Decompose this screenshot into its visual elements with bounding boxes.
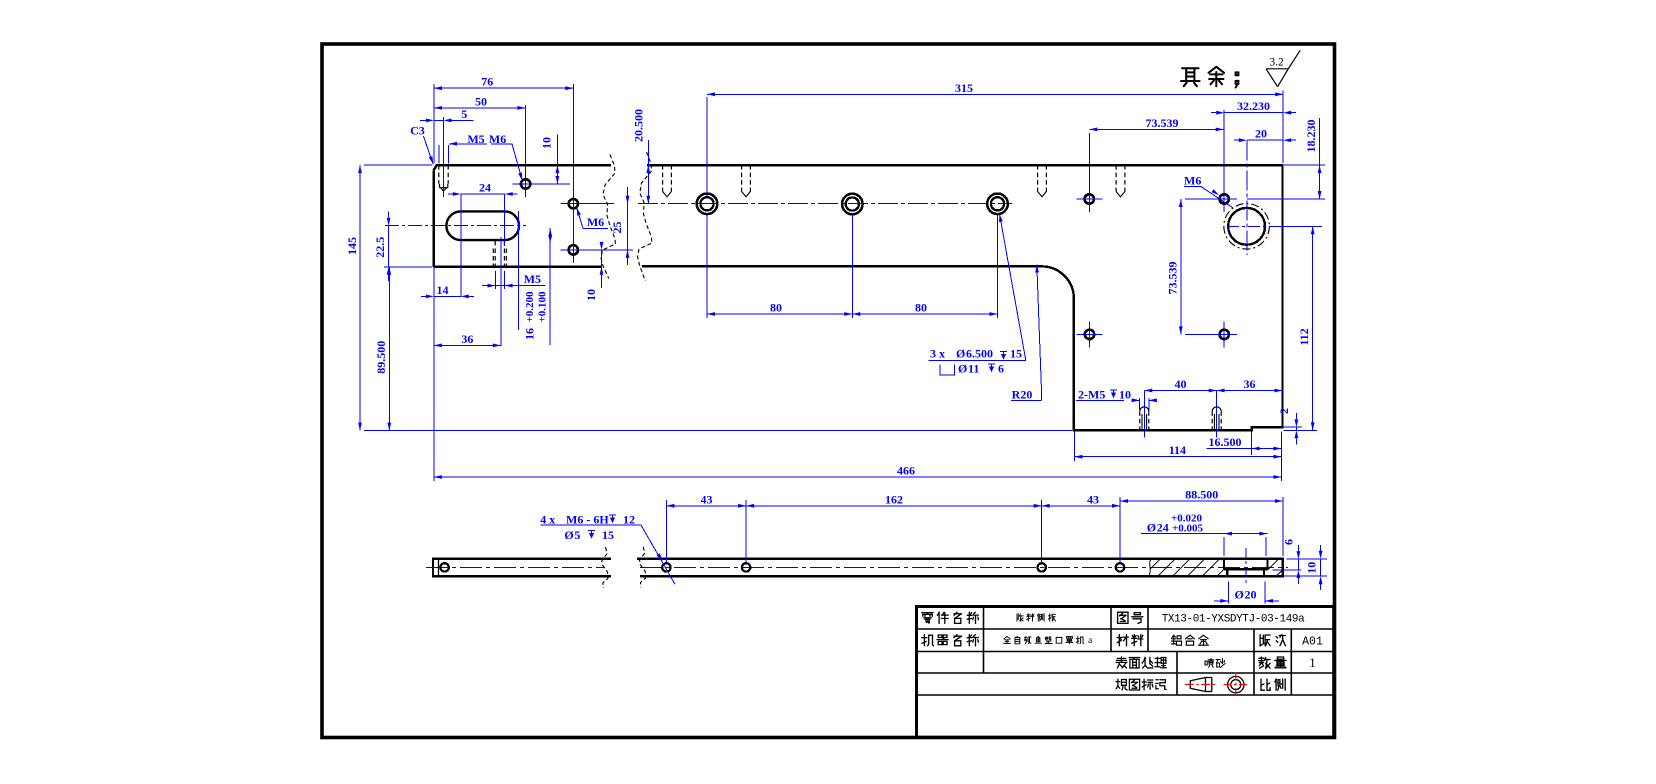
svg-text:20: 20 xyxy=(1255,127,1267,141)
hidden tapped hole M6 b xyxy=(741,165,743,191)
dim 6 pocket depth xyxy=(1286,558,1323,560)
hole M6 right col lower-right xyxy=(1220,330,1229,339)
counterbore hole 1 of 3 xyxy=(697,194,718,215)
dim 14 xyxy=(434,295,461,297)
hole M6 right col upper-right xyxy=(1220,194,1229,203)
svg-text:TX13-01-YXSDYTJ-03-149a: TX13-01-YXSDYTJ-03-149a xyxy=(1162,613,1305,625)
svg-text:3.2: 3.2 xyxy=(1269,57,1284,69)
dim 89.500 xyxy=(388,267,390,431)
svg-text:32.230: 32.230 xyxy=(1237,99,1270,113)
svg-text:2: 2 xyxy=(1277,408,1291,414)
hole M6 top-left xyxy=(521,179,530,188)
dim 315 xyxy=(706,97,708,196)
svg-text:+0.200: +0.200 xyxy=(524,291,536,323)
svg-text:M6: M6 xyxy=(587,215,604,229)
svg-text:25: 25 xyxy=(610,222,624,234)
side view holes xyxy=(440,563,448,571)
break line main left xyxy=(601,155,616,279)
hidden tapped hole M5 left end xyxy=(438,165,440,184)
svg-text:16.500: 16.500 xyxy=(1209,435,1242,449)
title text machine-name value xyxy=(1004,637,1011,644)
slot xyxy=(446,211,519,240)
svg-text:Ø: Ø xyxy=(1235,587,1244,601)
projection symbol cross red xyxy=(1224,684,1249,686)
title text quantity label xyxy=(1259,657,1270,668)
label 3x D6.5 counterbore leader xyxy=(1000,214,1026,360)
svg-text:50: 50 xyxy=(475,94,487,108)
dim 88.500 side xyxy=(1282,497,1284,556)
label M5 leader xyxy=(438,145,440,164)
dim 73.539 horizontal xyxy=(1088,133,1090,192)
dim 73.539 vertical xyxy=(1185,198,1218,200)
hole M6 mid lower xyxy=(569,245,578,254)
svg-text:145: 145 xyxy=(345,237,359,255)
dim 10 thickness xyxy=(1305,558,1327,560)
svg-text:10: 10 xyxy=(539,137,553,149)
title text part-name label xyxy=(922,613,933,624)
svg-text:18.230: 18.230 xyxy=(1304,120,1318,153)
svg-text:Ø: Ø xyxy=(564,528,573,542)
projection symbol cone xyxy=(1190,678,1205,692)
title block border xyxy=(917,607,1334,738)
svg-text:Ø: Ø xyxy=(958,362,967,376)
title text drawing-no label xyxy=(1118,612,1128,623)
dim 145 xyxy=(364,164,432,166)
big bore hole D24 xyxy=(1228,208,1265,245)
note qiyu (rest) text xyxy=(1181,68,1200,86)
title text part-name value xyxy=(1017,614,1023,621)
dim 112 xyxy=(1271,225,1322,227)
hidden tapped hole M6 a xyxy=(662,165,664,191)
side view break lines xyxy=(602,547,608,588)
part outline left section xyxy=(434,165,611,170)
svg-text:M5: M5 xyxy=(524,272,541,286)
title text material value xyxy=(1172,635,1182,645)
dim 22.5 xyxy=(384,266,432,268)
hidden tapped hole 2-M5 b xyxy=(1211,411,1213,430)
svg-text:15: 15 xyxy=(602,528,614,542)
dim 16.500 xyxy=(1251,432,1253,456)
dim 18.230 xyxy=(1284,164,1325,166)
dim 43 side left xyxy=(665,500,667,563)
svg-text:20.500: 20.500 xyxy=(632,109,646,142)
svg-text:80: 80 xyxy=(915,301,927,315)
hidden tapped hole M6 d xyxy=(1115,165,1117,191)
hole M6 mid upper xyxy=(569,199,578,208)
svg-text:+0.005: +0.005 xyxy=(1172,523,1204,535)
dim 43 side right xyxy=(1119,497,1121,563)
hidden tapped hole M6 c xyxy=(1037,165,1039,191)
svg-text:3 x: 3 x xyxy=(930,347,945,361)
svg-text:73.539: 73.539 xyxy=(1165,262,1179,295)
dim 80 first xyxy=(706,215,708,319)
hole row centerline xyxy=(584,203,614,205)
svg-text:80: 80 xyxy=(770,301,782,315)
svg-text:C3: C3 xyxy=(410,124,425,138)
svg-text:14: 14 xyxy=(437,283,449,297)
dim 114 xyxy=(1074,432,1076,462)
slot centerline xyxy=(385,225,526,227)
svg-text:M6: M6 xyxy=(1184,173,1201,187)
svg-text:5: 5 xyxy=(574,528,580,542)
svg-text:11: 11 xyxy=(968,362,979,376)
svg-text:1: 1 xyxy=(1309,655,1316,670)
dim 36 left xyxy=(434,344,501,346)
svg-text:43: 43 xyxy=(1087,492,1099,506)
svg-text:73.539: 73.539 xyxy=(1146,116,1179,130)
dim 24 slot xyxy=(460,194,462,297)
dim 40 xyxy=(1143,391,1145,405)
dim 10 lower xyxy=(601,250,603,288)
svg-text:Ø: Ø xyxy=(1147,521,1156,535)
border frame xyxy=(322,44,1335,738)
dim 5 xyxy=(434,119,444,121)
svg-text:112: 112 xyxy=(1297,328,1311,345)
label M5 below slot xyxy=(495,271,497,289)
counterbore hole 2 of 3 xyxy=(842,194,863,215)
svg-text:R20: R20 xyxy=(1012,388,1033,402)
svg-text:5: 5 xyxy=(461,107,467,121)
section break curve xyxy=(1149,559,1152,576)
projection symbol circles xyxy=(1228,676,1244,692)
section hatch xyxy=(1151,559,1161,569)
title text material label xyxy=(1117,635,1128,646)
hidden tapped hole M5 below slot xyxy=(494,241,496,267)
hole M6 right col lower-left xyxy=(1085,330,1094,339)
svg-text:10: 10 xyxy=(584,289,598,301)
side view centerline xyxy=(426,566,604,568)
svg-text:20: 20 xyxy=(1245,587,1257,601)
svg-text:40: 40 xyxy=(1175,377,1187,391)
svg-text:15: 15 xyxy=(1010,347,1022,361)
dim 2 step xyxy=(1284,426,1303,428)
dim 466 xyxy=(433,268,435,481)
dim 162 side xyxy=(1041,500,1043,563)
svg-text:162: 162 xyxy=(885,492,903,506)
dim 16 slot width tolerance xyxy=(518,211,520,330)
break line main right xyxy=(638,152,653,281)
part outline right section xyxy=(642,165,1283,430)
svg-text:315: 315 xyxy=(955,81,973,95)
title text revision label xyxy=(1260,635,1270,646)
svg-text:24: 24 xyxy=(479,181,491,195)
svg-text:2-M5: 2-M5 xyxy=(1078,388,1105,402)
svg-text:10: 10 xyxy=(1119,388,1131,402)
svg-text:43: 43 xyxy=(701,492,713,506)
svg-text:A01: A01 xyxy=(1302,635,1323,648)
dim 25 xyxy=(627,187,629,265)
title block grid xyxy=(917,628,1334,630)
dim D20 xyxy=(1227,582,1229,604)
svg-text:76: 76 xyxy=(481,75,493,89)
dim 32.230 xyxy=(1224,112,1283,114)
svg-text:a: a xyxy=(1088,635,1093,646)
hole M6 right col upper-left xyxy=(1085,194,1094,203)
title text surface value xyxy=(1205,659,1214,668)
title text scale label xyxy=(1261,679,1270,690)
dim 20 xyxy=(1247,139,1283,141)
dim 10 top xyxy=(556,135,558,184)
title text machine-name label xyxy=(922,635,934,646)
svg-text:88.500: 88.500 xyxy=(1185,488,1218,502)
title text viewmark label xyxy=(1116,679,1127,690)
dim 20.500 xyxy=(647,140,649,204)
svg-text:6.500: 6.500 xyxy=(966,347,993,361)
counterbore pocket D24 xyxy=(1223,559,1225,570)
svg-text:16: 16 xyxy=(523,328,537,340)
dim 76 xyxy=(433,84,435,163)
svg-text:10: 10 xyxy=(1305,562,1319,574)
dim 80 second xyxy=(852,313,997,315)
svg-text:466: 466 xyxy=(897,464,915,478)
projection symbol cone centerline red xyxy=(1185,683,1218,685)
svg-text:6: 6 xyxy=(998,362,1004,376)
svg-text:6: 6 xyxy=(1281,539,1295,545)
counterbore hole 3 of 3 xyxy=(987,194,1008,215)
svg-text:24: 24 xyxy=(1157,521,1169,535)
hidden tapped hole 2-M5 a xyxy=(1139,411,1141,430)
svg-text:36: 36 xyxy=(461,332,473,346)
dim 50 xyxy=(524,105,526,179)
side view chamfer line xyxy=(438,559,440,576)
dim 36 right xyxy=(1217,390,1283,392)
title text surface label xyxy=(1116,657,1127,668)
side view outline xyxy=(433,559,611,576)
svg-text:Ø: Ø xyxy=(956,347,965,361)
svg-text:114: 114 xyxy=(1169,443,1186,457)
svg-text:36: 36 xyxy=(1244,377,1256,391)
svg-text:22.5: 22.5 xyxy=(373,237,387,258)
svg-text:89.500: 89.500 xyxy=(374,341,388,374)
svg-text:+0.100: +0.100 xyxy=(537,291,549,323)
